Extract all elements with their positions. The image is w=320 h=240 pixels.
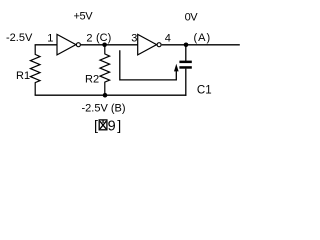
node A junction dot (184, 43, 189, 48)
annotation arrowhead (174, 64, 179, 72)
inverter U2 bubble (157, 43, 161, 47)
svg-text:-2.5V (B): -2.5V (B) (82, 102, 126, 114)
svg-text:(A): (A) (194, 32, 212, 44)
capacitor C1 bottom plate (179, 66, 191, 69)
svg-text:(C): (C) (96, 32, 111, 44)
svg-text:R2: R2 (85, 73, 99, 85)
junction dot at R2 bottom (103, 93, 108, 98)
wire U1 output to U2 input (81, 44, 138, 46)
svg-text:]: ] (117, 118, 121, 134)
inverter U1 triangle (57, 34, 76, 55)
svg-text:1: 1 (47, 33, 53, 45)
svg-text:9: 9 (108, 118, 116, 134)
capacitor C1 top plate (179, 61, 191, 64)
svg-text:3: 3 (131, 33, 137, 45)
svg-text:-2.5V: -2.5V (6, 32, 33, 44)
node C junction dot (102, 43, 107, 48)
resistor R1 (zigzag with leads) (30, 45, 40, 95)
capacitor C1 top lead (from node A) (185, 45, 187, 61)
bottom rail wire (-2.5V B rail) (35, 94, 187, 96)
svg-text:+5V: +5V (74, 10, 94, 22)
svg-text:2: 2 (86, 33, 92, 45)
svg-text:R1: R1 (16, 70, 30, 82)
svg-text:[: [ (94, 118, 98, 134)
inverter U2 triangle (138, 34, 157, 55)
kanji 図 drawn as glyph (99, 120, 107, 130)
capacitor C1 bottom lead (to rail) (185, 69, 187, 96)
resistor R2 (zigzag with leads) (100, 45, 110, 95)
svg-text:0V: 0V (185, 11, 199, 23)
wire input to U1 (35, 44, 57, 46)
svg-text:4: 4 (165, 33, 171, 45)
inverter U1 bubble (76, 43, 80, 47)
current path annotation arrow (down from node C wire, right, up to C1) (120, 50, 177, 80)
wire U2 output to right edge (162, 44, 240, 46)
svg-text:C1: C1 (197, 85, 212, 97)
